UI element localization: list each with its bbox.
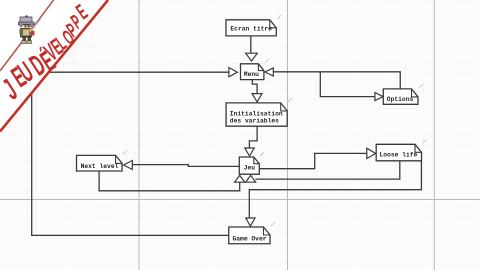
svg-text:Jeu: Jeu xyxy=(244,165,256,172)
svg-text:Initialisation: Initialisation xyxy=(230,110,283,117)
svg-text:Next level: Next level xyxy=(81,163,119,170)
svg-text:Menu: Menu xyxy=(244,71,259,78)
svg-text:Loose life: Loose life xyxy=(380,152,418,159)
svg-text:Ecran titre: Ecran titre xyxy=(230,26,272,33)
svg-text:des variables: des variables xyxy=(230,118,279,125)
svg-text:Options: Options xyxy=(387,96,414,103)
svg-text:Game Over: Game Over xyxy=(233,235,267,242)
